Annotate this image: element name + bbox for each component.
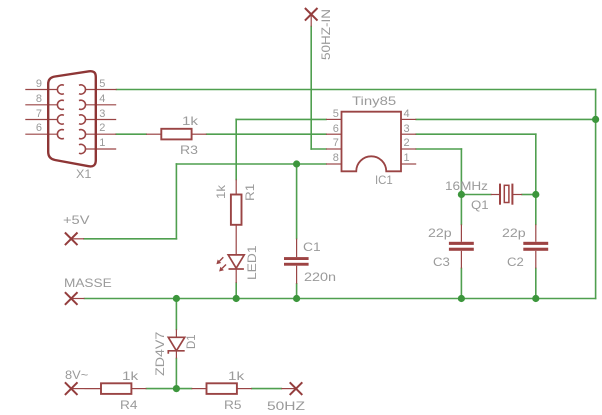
resistor R3 body <box>161 129 191 140</box>
50HZ X stub <box>281 388 296 390</box>
C3 top lead <box>460 224 462 241</box>
LED arrow 1 head <box>216 260 221 265</box>
DB9 pin number 3 <box>99 109 105 120</box>
IC pin number 6 <box>333 124 339 135</box>
wire: R3 to IC pin6 <box>207 133 326 135</box>
IC pin number 2 <box>404 138 410 149</box>
X marks (unconnected net flags) <box>65 8 318 395</box>
junction crystal right <box>532 191 539 198</box>
IC pin number 1 <box>404 153 410 164</box>
wire: DB9 pin5 / GND top row <box>117 89 596 91</box>
wire: right vertical GND <box>595 90 597 299</box>
IC pin number 4 <box>404 109 410 120</box>
wire: C1 lower vertical <box>296 284 298 299</box>
IC pin number 5 <box>333 109 339 120</box>
X1 pin 4 stub <box>86 104 117 106</box>
C1 top lead <box>296 239 298 258</box>
wire: 50HZ-IN to IC pin7 <box>311 148 326 150</box>
IC pin number 7 <box>333 138 339 149</box>
connector X1 (DB9) <box>48 71 96 166</box>
DB9 pin arcs <box>57 85 85 154</box>
Q1 right lead <box>512 194 522 196</box>
C1 bottom lead <box>296 266 298 284</box>
label 1k of R4 <box>122 370 138 382</box>
label 220n <box>304 271 336 283</box>
label ZD4V7 vertical <box>154 332 166 376</box>
wire: crystal row right <box>522 194 536 196</box>
X mark +5V <box>65 233 78 246</box>
wire: MASSE row <box>85 298 596 300</box>
pin 7 arc <box>57 115 63 124</box>
label D1 vertical <box>185 334 197 349</box>
label 1k of R1 vertical <box>215 185 227 199</box>
junction pin8 row / C1 <box>293 160 300 167</box>
pin stubs <box>25 14 536 388</box>
X mark MASSE <box>65 292 78 305</box>
wire: crystal row left <box>461 194 490 196</box>
label 16MHz <box>445 180 488 192</box>
wire: crystal right column upper <box>535 134 537 194</box>
LED arrow 2 <box>222 265 226 269</box>
label R4 <box>120 399 137 411</box>
C3 bottom lead <box>460 251 462 269</box>
capacitor C2 <box>523 242 548 251</box>
wire: IC pin5 row to R1 column <box>236 118 326 120</box>
label 1k of R5 <box>228 370 244 382</box>
label +5V <box>63 214 89 226</box>
DB9 pin number 4 <box>99 94 105 105</box>
8V~ X stub <box>71 388 84 390</box>
X mark 50HZ <box>290 382 303 395</box>
DB9 pin number 9 <box>36 79 42 90</box>
label C3 <box>433 256 450 268</box>
capacitor C1 <box>284 257 309 266</box>
R1 top lead <box>235 180 237 195</box>
pin 8 arc <box>57 100 63 109</box>
label C2 <box>507 256 524 268</box>
label R1 vertical <box>244 183 256 200</box>
label 8V~ <box>65 369 88 381</box>
DB9 pin number 8 <box>36 94 42 105</box>
LED arrow 1 <box>219 257 223 261</box>
label X1 <box>76 168 91 180</box>
R5 right lead <box>237 388 252 390</box>
X mark 8V~ <box>65 382 78 395</box>
wire: crystal right column to C2 <box>535 195 537 225</box>
C2 top lead <box>535 224 537 241</box>
wire: R1 column vertical <box>235 119 237 179</box>
wire: +5V row to IC pin8 <box>176 163 326 165</box>
50HZ-IN X stub <box>310 14 312 26</box>
wire: +5V horizontal <box>84 238 176 240</box>
DB9 pin number 6 <box>36 123 42 134</box>
label Q1 <box>471 199 489 211</box>
pin 4 arc <box>79 100 85 109</box>
wire: R5 to 50HZ <box>252 388 281 390</box>
junction crystal left <box>458 191 465 198</box>
R3 right lead <box>192 133 207 135</box>
pin 3 arc <box>79 115 85 124</box>
IC1 pin 6 stub <box>326 133 342 135</box>
wire: C3 to MASSE <box>460 268 462 298</box>
wire: +5V vertical leg <box>175 164 177 239</box>
pin 1 arc <box>79 144 85 153</box>
capacitor C3 <box>449 242 474 251</box>
IC pin number 8 <box>333 153 339 164</box>
D1 top lead <box>175 329 177 337</box>
junction MASSE / C1 <box>293 295 300 302</box>
label 22p of C2 <box>502 227 526 239</box>
pin 5 arc <box>79 85 85 94</box>
label IC1 <box>375 174 393 186</box>
LED LED1 <box>219 255 244 269</box>
X1 pin 6 stub <box>25 133 57 135</box>
R1 bottom / LED1 anode lead <box>235 225 237 255</box>
wire: IC pin3 to crystal right column <box>416 133 536 135</box>
label MASSE <box>64 277 112 289</box>
DB9 pin number 1 <box>99 138 105 149</box>
wire: C2 to MASSE <box>535 268 537 298</box>
IC1 pin 3 stub <box>401 133 416 135</box>
IC pin number 3 <box>404 124 410 135</box>
wire: crystal left column upper <box>460 149 462 195</box>
DB9 pin number 2 <box>99 123 105 134</box>
LED1 cathode lead <box>235 269 237 283</box>
junction D1 / R4 / R5 <box>173 385 180 392</box>
label 22p of C3 <box>428 227 452 239</box>
wire: DB9 pin2 to R3 <box>116 133 146 135</box>
DB9 pin number 5 <box>99 79 105 90</box>
R3 left lead <box>146 133 161 135</box>
label 1k of R3 <box>182 115 198 127</box>
IC1 pin 8 stub <box>326 163 342 165</box>
pin 6 arc <box>57 130 63 139</box>
X1 pin 8 stub <box>25 104 57 106</box>
wire: D1 to bottom row <box>175 359 177 389</box>
pin 2 arc <box>79 130 85 139</box>
+5V X stub <box>71 238 84 240</box>
LED arrow 2 head <box>219 267 224 272</box>
op IC1 ATtiny85 body <box>342 112 402 172</box>
wire: IC pin4 to right vertical <box>416 118 595 120</box>
Q1 left lead <box>491 194 500 196</box>
IC1 pin 2 stub <box>401 148 416 150</box>
label 50HZ <box>267 400 305 412</box>
X1 pin 3 stub <box>86 119 117 121</box>
MASSE X stub <box>71 298 84 300</box>
pin 9 arc <box>57 85 63 94</box>
label 50HZ-IN vertical <box>320 9 332 60</box>
R4 right lead <box>131 388 146 390</box>
IC1 pin 1 stub <box>401 163 416 165</box>
label Tiny85 <box>352 95 396 107</box>
IC1 pin 4 stub <box>401 118 416 120</box>
X1 pin 5 stub <box>86 89 117 91</box>
resistor R5 body <box>207 383 237 394</box>
X1 pin 1 stub <box>86 148 117 150</box>
wire: C1 upper vertical <box>296 164 298 239</box>
junction MASSE / LED <box>233 295 240 302</box>
wire: LED to MASSE <box>235 283 237 299</box>
crystal Q1 <box>500 184 512 205</box>
wire: 50HZ-IN vertical <box>310 27 312 150</box>
X1 pin 9 stub <box>25 89 57 91</box>
label LED1 vertical <box>246 245 258 280</box>
junction MASSE / C2 <box>532 295 539 302</box>
IC1 pin 5 stub <box>326 118 342 120</box>
R5 left lead <box>192 388 207 390</box>
DB9 pin number 7 <box>36 109 42 120</box>
label R3 <box>180 144 198 156</box>
X1 pin 7 stub <box>25 119 57 121</box>
label C1 <box>303 241 321 253</box>
wire: MASSE to D1 <box>175 299 177 330</box>
resistor R4 body <box>101 383 131 394</box>
C2 bottom lead <box>535 251 537 269</box>
wire: IC pin2 to crystal column <box>416 148 461 150</box>
junction MASSE / C3 <box>458 295 465 302</box>
junction right vert / pin4 <box>592 116 599 123</box>
R4 left lead <box>85 388 102 390</box>
D1 bottom lead <box>175 351 177 359</box>
wire: crystal left column to C3 <box>460 195 462 225</box>
IC1 pin 7 stub <box>326 148 342 150</box>
wire: R4 to R5 <box>146 388 191 390</box>
resistor R1 body <box>231 195 242 225</box>
zener diode D1 <box>168 337 184 354</box>
label R5 <box>224 399 241 411</box>
X mark 50HZ-IN <box>305 8 318 21</box>
junction MASSE / D1 <box>173 295 180 302</box>
X1 pin 2 stub <box>86 133 117 135</box>
